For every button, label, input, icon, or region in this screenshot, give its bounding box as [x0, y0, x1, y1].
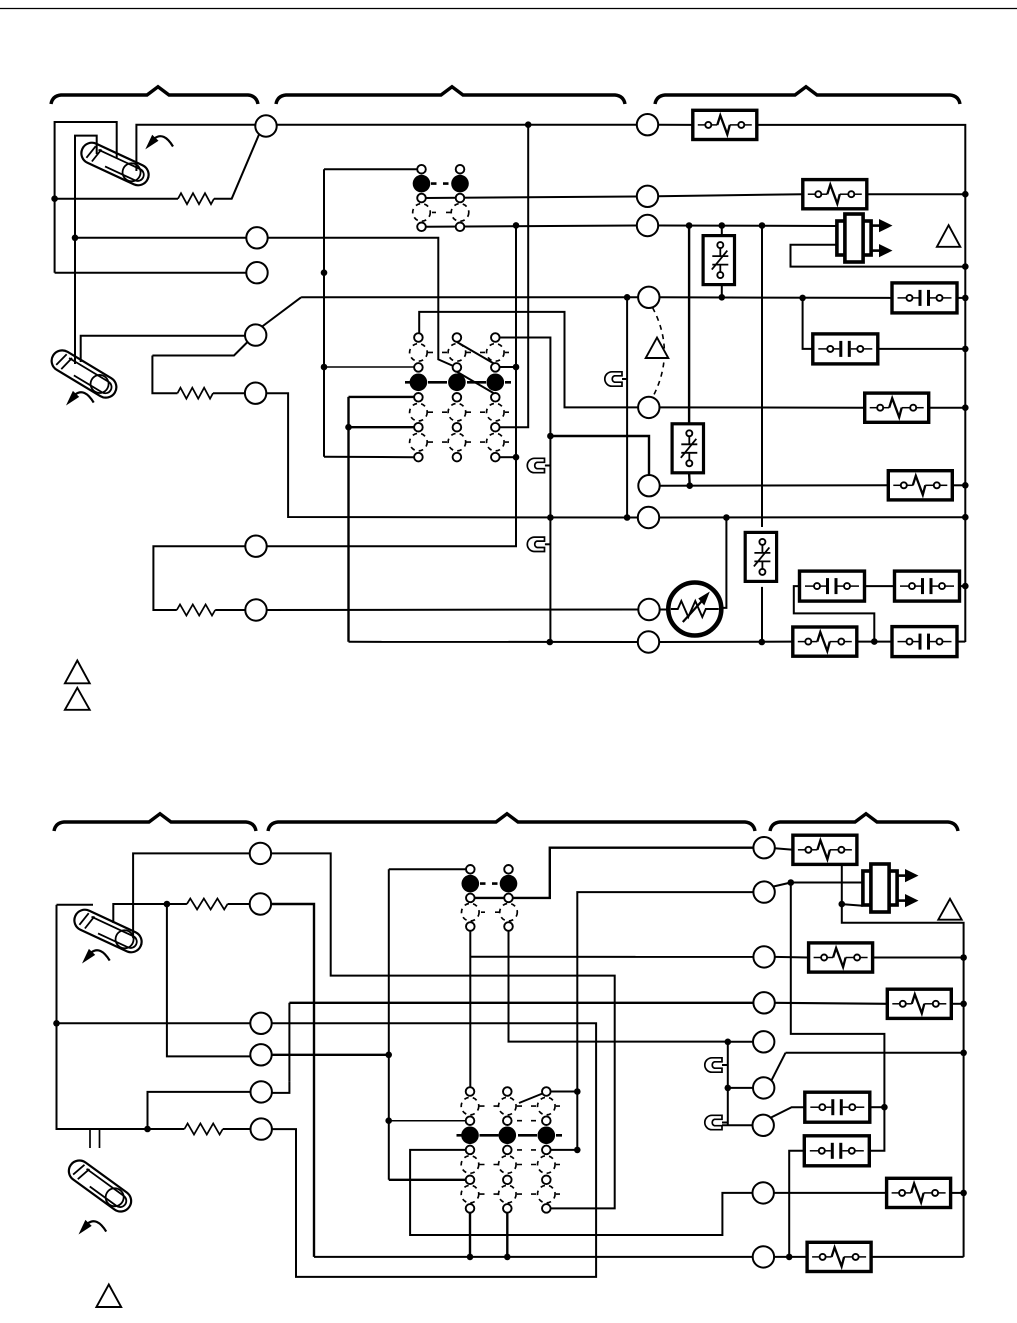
- wire: branch down to contact 2: [803, 298, 813, 349]
- terminal R (top): [255, 115, 276, 136]
- wire: riser to big grid col1 row3 pin: [389, 1120, 466, 1122]
- mercury bulb switch 2 (top diagram): [48, 346, 121, 401]
- relay contact open: small grid bottom col1: [462, 903, 480, 921]
- junction: bus / coil 2: [962, 191, 969, 198]
- wire: lamp 3 tap: [545, 543, 551, 545]
- relay contact open: small grid col1: [413, 204, 431, 222]
- relay coil B1 (bottom): [793, 835, 857, 864]
- pin: big grid col1 r5: [414, 393, 423, 402]
- relay contact open: big grid col3 r8: [487, 433, 505, 451]
- pin: big grid bottom col1 r1: [466, 1087, 475, 1096]
- wire: bulb 3 tip feed: [57, 904, 94, 906]
- resistor: heat anticipator 3 (top): [177, 605, 215, 616]
- wire: terminal Y to grid col2 row3 pin: [268, 238, 454, 366]
- relay contact open: small grid col2: [451, 204, 469, 222]
- pin: big grid col3 r1: [491, 333, 500, 342]
- wire: small grid row3 to mid terminal 2: [426, 197, 637, 199]
- junction: bus / contact 1: [962, 295, 969, 302]
- junction: contact 3 branch / bottom row: [871, 638, 878, 645]
- wire: switch arm of terminal G: [262, 297, 302, 327]
- linkage ticks: big grid open row y442.1: [428, 441, 509, 443]
- relay contact closed: small grid bottom col1: [462, 875, 480, 893]
- junction: switch A / G wire: [719, 294, 726, 301]
- equipment terminal 8 (top): [638, 599, 659, 620]
- wire: M2 arm to plug: [791, 882, 863, 884]
- wire: riser to big grid col1 row7 pin: [389, 1179, 466, 1181]
- triangle note 4 (top diagram): [65, 661, 90, 684]
- pressure switch B (top): [672, 424, 703, 473]
- equipment terminal 1 (top): [637, 114, 658, 135]
- triangle note 1 (top diagram): [937, 225, 960, 247]
- wire: lamp 1 tap: [622, 378, 627, 380]
- relay contact open: big grid bottom col3 r6: [538, 1156, 556, 1174]
- wire: contact B5 to bottom bus: [789, 1151, 805, 1257]
- wire: pole3 top pin down right tie: [500, 338, 550, 643]
- junction: contact 1 branch: [799, 295, 806, 302]
- mercury bulb switch 4 (bottom diagram): [65, 1156, 136, 1215]
- pin: small grid bottom col2 bottom: [504, 922, 513, 931]
- wire: drop to fan motor: [722, 518, 727, 608]
- wire: left bus down to T6 row: [57, 1023, 91, 1129]
- linkage ticks: big grid open row y352.4: [428, 351, 509, 353]
- wire: T3 long loop to T6: [272, 1023, 597, 1277]
- junction: lamp drop / M6a wire: [725, 1085, 732, 1092]
- relay coil 5 (top): [793, 627, 857, 656]
- linkage ticks: big grid bottom open row y1194.1: [480, 1193, 561, 1195]
- relay contact open: big grid col1 r8: [410, 433, 428, 451]
- equipment terminal 7 (top): [638, 507, 659, 528]
- linkage ticks: big grid bottom open row y1106.1: [480, 1105, 561, 1107]
- wire: bulb 1 to terminal R: [136, 125, 255, 171]
- wire: lamp drop: [626, 297, 628, 517]
- pin: big grid col1 r7: [414, 423, 423, 432]
- junction: switch C / bottom wire: [759, 639, 766, 646]
- wire: resistor 4 to terminal T6: [223, 1128, 251, 1130]
- equipment terminal 5 (top): [638, 397, 659, 418]
- pin: small grid bottom col2 mid: [504, 894, 513, 903]
- relay contact open: big grid bottom col1 r6: [461, 1156, 479, 1174]
- wire: to terminal W: [55, 272, 247, 274]
- pin: big grid col3 r3: [491, 363, 500, 372]
- linkage ticks: big grid open row y412.2: [428, 411, 509, 413]
- junction: tie at terminal-7 wire: [547, 514, 554, 521]
- junction: W wire on bus 324: [321, 269, 328, 276]
- mercury bulb switch 1 (top diagram): [78, 139, 152, 188]
- junction: M2 riser / col3 top: [574, 1088, 581, 1095]
- wire: T5 riser: [288, 1003, 290, 1082]
- linkage dash: small grid open row: [432, 211, 451, 213]
- wire: coil B1 output drop: [841, 856, 843, 904]
- terminal T5 (bottom): [251, 1081, 272, 1102]
- wire: linkage diagonal col2 top to col3 row3: [457, 342, 499, 367]
- wire: coil B7 to right bus corner: [872, 1256, 964, 1258]
- junction: tie at pole 3 row 9: [513, 454, 520, 461]
- triangle note 6 (bottom diagram): [96, 1285, 121, 1308]
- wire: contact B4 to junction: [869, 1106, 885, 1108]
- pin: small grid col2 bottom: [456, 223, 465, 232]
- wire: mid terminal 6 to heat relay coil: [660, 484, 889, 486]
- junction: col2 drop / bottom bus: [504, 1254, 511, 1261]
- equipment terminal M1 (bottom): [753, 837, 774, 858]
- wire: T1 long run to big grid col3 bottom: [271, 853, 615, 1208]
- wire: switch B to terminal 6 wire: [688, 473, 691, 486]
- terminal T4 (bottom): [250, 1044, 271, 1065]
- pin: big grid col2 r7: [453, 423, 462, 432]
- indicator lamp 2 (top): [527, 458, 544, 472]
- wire: small grid col2 bottom to terminal M5: [509, 927, 728, 1042]
- pin: big grid bottom col3 r3: [542, 1116, 551, 1125]
- wire: T2 long run down: [271, 904, 314, 1257]
- wire: drop to vertical switch B: [688, 226, 690, 424]
- pressure switch C (top): [745, 532, 776, 581]
- wire: contact 5 to bus corner: [956, 641, 965, 643]
- pressure switch A (top): [703, 236, 734, 285]
- wire: terminal 7 to fan terminal: [267, 609, 639, 612]
- relay contact open: big grid bottom col1 r8: [461, 1185, 479, 1203]
- relay contact open: big grid col3 r2: [487, 344, 505, 362]
- junction: pressure switch bottom: [686, 482, 693, 489]
- relay contact set 3 (top): [800, 571, 865, 601]
- wire: bracket to terminal G: [152, 343, 247, 356]
- wire: dot to terminal M6a: [728, 1087, 753, 1089]
- relay contact open: big grid col1 r6: [410, 403, 428, 421]
- junction: B1 output / plug lead: [839, 901, 846, 908]
- resistor: heat anticipator 1 (top): [178, 193, 214, 204]
- wire: drop to switch A top: [721, 226, 723, 237]
- junction: M5 / lamp drop: [725, 1039, 732, 1046]
- wire: linkage diagonal col2 row3 to col3 row5: [457, 372, 499, 397]
- wire: contact 3 loop to bottom row: [794, 586, 875, 642]
- wire: terminal R to mid terminal 1: [277, 124, 638, 126]
- linkage dash: small grid closed row: [431, 182, 451, 185]
- junction: bus / coil B2: [960, 954, 967, 961]
- wire: terminal T4 right: [272, 1054, 389, 1056]
- relay contact open: big grid col1 r2: [410, 344, 428, 362]
- pin: big grid bottom col2 r9: [503, 1204, 512, 1213]
- wire: small grid col1 bottom down to big grid: [469, 927, 471, 1088]
- wire: lamp 4 tap: [722, 1064, 728, 1066]
- wire: terminal M8 to coil B7: [774, 1256, 807, 1258]
- wire: bus 348 to grid col1 row7 pin: [349, 426, 415, 428]
- wire: terminal T5 to T6 row: [148, 1092, 251, 1129]
- wire: M6b switch arm to contact B4: [771, 1107, 806, 1117]
- pin: big grid col3 r5: [491, 393, 500, 402]
- linkage ticks: big grid bottom row5: [517, 1149, 536, 1151]
- junction: row3 wire on bus 324: [321, 364, 328, 371]
- pin: big grid bottom col1 r7: [466, 1176, 475, 1185]
- brace: equipment section (top diagram): [655, 87, 960, 104]
- junction: lamp drop on G row: [624, 294, 631, 301]
- wire: linkage diagonal big grid bottom: [519, 1093, 545, 1104]
- wire: tie to mid terminal 6: [550, 436, 649, 475]
- junction: lamp drop / terminal7 wire: [624, 514, 631, 521]
- triangle note 2 (bottom diagram): [938, 899, 961, 920]
- wire: bracket down to anticipator 2: [152, 356, 177, 394]
- relay contact open: big grid bottom col1 r2: [461, 1097, 479, 1115]
- wire: contact 1 to bus: [957, 297, 965, 299]
- equipment terminal M5 (bottom): [753, 1031, 774, 1052]
- wire: col3 top pin to M2 riser: [551, 1091, 578, 1093]
- equipment terminal M6a (bottom): [753, 1077, 774, 1098]
- equipment terminal M7 (bottom): [753, 1182, 774, 1203]
- wire: terminal G to bulb 2: [81, 336, 246, 362]
- wire: coil 3 to bus: [929, 407, 966, 409]
- wire: right bus (bottom diagram): [842, 904, 964, 1257]
- pin: big grid col2 r9: [453, 453, 462, 462]
- relay contact set B5 (bottom): [804, 1136, 869, 1166]
- pin: big grid bottom col2 r1: [503, 1087, 512, 1096]
- wire: coil B3 to right bus: [951, 1003, 964, 1005]
- junction: T5 riser / T6 row: [144, 1126, 151, 1133]
- wire: G arm to mid terminal 4: [301, 296, 638, 298]
- rotation arrow 1 (top diagram): [145, 135, 173, 150]
- rotation arrow 4 (bottom diagram): [79, 1220, 107, 1235]
- wire: tie to pole 3 row 9 pin: [500, 456, 516, 458]
- wire: switch C to bottom wire: [761, 587, 763, 642]
- pin: small grid bottom col1 bottom: [466, 922, 475, 931]
- wire: col2 bottom pin drop: [506, 1213, 508, 1257]
- wire: terminal 6 up relay tie: [267, 225, 517, 546]
- wire: coil 2 to right bus: [868, 193, 966, 195]
- relay contact open: small grid bottom col2: [500, 903, 518, 921]
- dashed link: mid terminal 4 to 5: [653, 308, 665, 397]
- wire: drop through switch C: [761, 226, 763, 528]
- wire: terminal T1 to bulb 3: [133, 853, 250, 938]
- wire: B1 output to plug: [842, 904, 863, 906]
- linkage dash: big grid bottom closed row: [457, 1134, 563, 1137]
- wire: to heat anticipator 1: [55, 198, 178, 200]
- wire: plug return loop to bus: [791, 245, 966, 267]
- equipment terminal M8 (bottom): [753, 1246, 774, 1267]
- equipment terminal 4 (top): [638, 287, 659, 308]
- pin: big grid col2 r3: [453, 363, 462, 372]
- wire: lamp 5 tap: [722, 1122, 728, 1124]
- wire: drop to pole 3 row 7 pin: [500, 125, 528, 428]
- triangle note 3 (top diagram): [646, 338, 669, 358]
- equipment terminal 3 (top): [637, 215, 658, 236]
- wire: bus 324 to grid col1 row3 pin: [324, 366, 414, 368]
- wire: G row to contact 1: [659, 296, 891, 299]
- equipment terminal 6 (top): [638, 475, 659, 496]
- wire: terminal M1 to coil B1: [775, 848, 793, 850]
- wire: M6a switch arm: [772, 1053, 786, 1081]
- relay contact open: big grid bottom col2 r6: [499, 1156, 517, 1174]
- junction: bus / coil B3: [960, 1001, 967, 1008]
- wire: col3 row5 pin to M2 riser: [551, 1149, 578, 1151]
- equipment terminal 2 (top): [637, 186, 658, 207]
- junction: T4 / grid riser: [385, 1052, 392, 1059]
- wire: dot to resistor 4: [166, 1128, 184, 1130]
- wire: to terminal Y: [75, 237, 246, 239]
- mercury bulb switch 3 (bottom diagram): [71, 906, 145, 955]
- rotation arrow 3 (bottom diagram): [82, 949, 110, 964]
- junction: bus / plug loop: [962, 263, 969, 270]
- wire: T2 wire to bulb 3 electrode: [113, 904, 167, 923]
- wire: coil 5 to contact 5: [857, 641, 892, 643]
- brace: thermostat section (top diagram): [51, 87, 258, 104]
- equipment terminal M4 (bottom): [753, 992, 774, 1013]
- junction: drop on R wire: [525, 121, 532, 128]
- wire: M6a arm to right bus: [786, 1052, 964, 1054]
- pin: big grid bottom col3 r9: [542, 1204, 551, 1213]
- wire: anticipator 5 to junction: [167, 903, 187, 905]
- wire: mid terminal 3 to plug: [658, 225, 837, 228]
- wire: M2 switch arm: [774, 883, 791, 887]
- pin: small grid col2 mid: [456, 194, 465, 203]
- indicator lamp 5 (bottom): [705, 1115, 722, 1129]
- relay contact set 2 (top): [813, 334, 878, 364]
- page top rule: [0, 8, 1017, 10]
- pin: small grid col1 bottom: [417, 223, 426, 232]
- wire: M2 branch to contact B4 output: [791, 883, 885, 1108]
- junction: bus / contact 4: [962, 583, 969, 590]
- junction: bus / contact 2: [962, 346, 969, 353]
- wire: terminal T2 to anticipator 5: [228, 903, 250, 905]
- wire: bus 324 to small grid col1 top pin: [324, 168, 417, 170]
- junction: bus / M6a arm: [960, 1050, 967, 1057]
- relay coil B3 (bottom): [887, 989, 951, 1018]
- wire: left bus to terminal T3: [57, 1022, 251, 1024]
- terminal T1 (bottom): [250, 843, 271, 864]
- junction: B4 output: [881, 1104, 888, 1111]
- wire: switch arm up to terminal R: [214, 135, 259, 199]
- junction: tie at fan-limit wire: [547, 433, 554, 440]
- relay contact closed: big grid bottom col2 r4: [499, 1127, 517, 1145]
- wire: riser to terminal T5: [272, 1082, 290, 1093]
- junction: B5 drop / bottom bus: [786, 1254, 793, 1261]
- relay coil B7 (bottom): [807, 1242, 871, 1271]
- relay contact open: big grid col2 r6: [448, 403, 466, 421]
- relay contact open: big grid bottom col2 r2: [499, 1097, 517, 1115]
- indicator lamp 3 (top): [527, 537, 544, 551]
- terminal W (top): [246, 262, 267, 283]
- wire: terminal 6 left loop: [153, 546, 245, 610]
- pin: big grid bottom col1 r5: [466, 1146, 475, 1155]
- wire: contact 2 to bus: [878, 348, 965, 350]
- junction: M2 arm / plug lead: [788, 879, 795, 886]
- pin: big grid bottom col3 r1: [542, 1087, 551, 1096]
- resistor: heat anticipator 2 (top): [178, 388, 214, 399]
- junction: left bus / T3 wire: [53, 1020, 60, 1027]
- pin: small grid col2 top: [456, 165, 465, 174]
- relay contact set B4 (bottom): [805, 1092, 870, 1122]
- equipment terminal M3 (bottom): [753, 946, 774, 967]
- wire: terminal M2 riser: [577, 892, 753, 1150]
- relay contact open: big grid bottom col3 r8: [538, 1185, 556, 1203]
- wire: left bus down (bottom): [56, 905, 58, 1024]
- wire: thick bus to terminal M4: [289, 1002, 753, 1004]
- brace: subbase section (bottom diagram): [268, 814, 755, 831]
- wire: contact 4 to bus: [959, 585, 965, 587]
- wire: terminal M3 to coil B2: [775, 956, 809, 959]
- pin: big grid bottom col2 r7: [503, 1176, 512, 1185]
- terminal 6 (top left): [245, 536, 266, 557]
- linkage dash: big grid closed row: [405, 381, 511, 384]
- terminal Y (top): [246, 227, 267, 248]
- relay contact closed: big grid bottom col1 r4: [461, 1127, 479, 1145]
- wire: small grid row3 to terminal M1: [475, 848, 754, 898]
- wire: col1 row5 loop to terminal M7: [410, 1150, 752, 1235]
- pin: big grid col1 r1: [414, 333, 423, 342]
- wire: vertical bus x348: [347, 397, 349, 642]
- junction: drop to switch A: [719, 222, 726, 229]
- wire: T6 row to anticipator: [90, 1128, 166, 1130]
- relay contact open: big grid bottom col3 r2: [538, 1097, 556, 1115]
- wire: resistor to terminal 7: [215, 609, 245, 611]
- wire: bulb 4 electrode stubs: [90, 1129, 100, 1148]
- junction: bus / coil 3: [962, 404, 969, 411]
- pin: big grid bottom col3 r7: [542, 1176, 551, 1185]
- pin: big grid col3 r7: [491, 423, 500, 432]
- wire: terminal M6b to lamp 5: [722, 1124, 753, 1126]
- wire: coil B6 to right bus: [951, 1192, 964, 1194]
- relay contact closed: small grid col1: [413, 175, 431, 193]
- wire: bottom bus to terminal M8: [314, 1256, 753, 1258]
- relay contact set 1 (top): [892, 283, 957, 313]
- relay contact open: big grid bottom col2 r8: [499, 1185, 517, 1203]
- junction: drop to limit switch: [686, 222, 693, 229]
- quick-connect plug (bottom diagram): [863, 864, 919, 912]
- wire: terminal M7 to coil B6: [774, 1192, 887, 1194]
- wire: mid terminal 5 to coil 3: [659, 406, 865, 408]
- pin: big grid col2 r5: [453, 393, 462, 402]
- brace: thermostat section (bottom diagram): [54, 814, 256, 831]
- wire: terminal 5 to mid terminal 7: [266, 393, 638, 517]
- rotation arrow 2 (top diagram): [66, 391, 94, 406]
- relay contact closed: big grid col2 r4: [448, 374, 466, 392]
- indicator lamp 4 (bottom): [705, 1058, 722, 1072]
- wire: col1 bottom pin drop: [469, 1213, 471, 1257]
- wire: terminal 7 row to bus: [659, 516, 965, 518]
- resistor: heat anticipator 5 (bottom): [187, 899, 228, 910]
- terminal T3 (bottom): [250, 1013, 271, 1034]
- relay coil 2 (top): [803, 180, 867, 209]
- indicator lamp 1 (top): [605, 372, 622, 386]
- linkage ticks: big grid bottom open row y1164.5: [480, 1164, 561, 1166]
- pin: small grid bottom col1 top: [466, 865, 475, 874]
- junction: tie at pole 3 row 3: [513, 364, 520, 371]
- wire: fan terminal to fan motor: [660, 609, 669, 611]
- relay contact set 5 (top): [892, 627, 957, 657]
- wire: lamp drop (bottom): [727, 1042, 729, 1126]
- relay contact closed: big grid col1 r4: [410, 374, 428, 392]
- wire: small grid row5 to mid terminal 3: [426, 226, 637, 227]
- wire: tie to pole 3 row 3 pin: [500, 366, 516, 368]
- resistor: heat anticipator 4 (bottom): [184, 1124, 222, 1135]
- linkage ticks: big grid bottom row3: [517, 1120, 536, 1122]
- terminal T6 (bottom): [251, 1118, 272, 1139]
- relay coil 1 (top): [693, 110, 757, 139]
- terminal 7 (top left): [245, 599, 266, 620]
- brace: equipment section (bottom diagram): [770, 814, 958, 831]
- relay contact closed: big grid col3 r4: [487, 374, 505, 392]
- equipment terminal 9 (top): [638, 631, 659, 652]
- wire: bus 348 to grid col1 row5 pin: [349, 396, 415, 398]
- pin: small grid col1 mid: [417, 194, 426, 203]
- triangle note 5 (top diagram): [65, 688, 90, 710]
- wire: inner loop down to bulb 2: [74, 238, 76, 364]
- junction: bus / terminal 7 row: [962, 514, 969, 521]
- pin: big grid col2 r1: [453, 333, 462, 342]
- wire: outer loop to bulb 1: [55, 122, 117, 273]
- linkage ticks: small grid (bottom) open row: [481, 911, 500, 913]
- pin: small grid bottom col2 top: [504, 865, 513, 874]
- junction: fan drop: [723, 514, 730, 521]
- relay contact open: big grid col3 r6: [487, 403, 505, 421]
- relay coil B2 (bottom): [809, 943, 873, 972]
- junction: left bus / anticipator: [51, 195, 58, 202]
- quick-connect plug (top diagram): [837, 214, 893, 262]
